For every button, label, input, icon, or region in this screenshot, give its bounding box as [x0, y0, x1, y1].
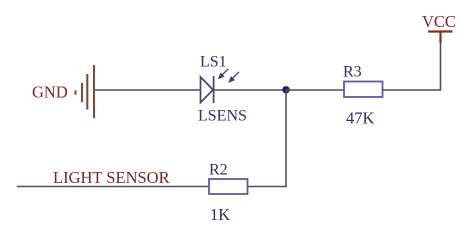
LED LS1: [201, 76, 214, 103]
svg-text:GND: GND: [32, 83, 68, 102]
svg-text:47K: 47K: [346, 109, 375, 128]
wire node down to bottom row: [285, 90, 287, 187]
wire LED to node: [214, 89, 286, 91]
resistor R3: [344, 82, 383, 98]
svg-text:LIGHT SENSOR: LIGHT SENSOR: [53, 168, 170, 187]
wire node to R3: [286, 89, 344, 91]
wire LIGHT SENSOR to R2: [17, 186, 209, 188]
VCC power symbol: [428, 32, 453, 44]
ground: [76, 65, 95, 118]
svg-text:R2: R2: [209, 162, 228, 179]
svg-text:R3: R3: [343, 64, 362, 81]
svg-text:LS1: LS1: [200, 54, 227, 71]
svg-text:LSENS: LSENS: [198, 108, 247, 125]
light arrows: [219, 69, 239, 82]
wire R2 to node riser: [248, 186, 287, 188]
wire R3 to VCC corner: [383, 42, 441, 90]
svg-text:1K: 1K: [210, 205, 230, 224]
node junction: [282, 86, 289, 93]
wire ground to LED: [95, 89, 200, 91]
resistor R2: [209, 179, 248, 194]
svg-text:VCC: VCC: [422, 12, 456, 31]
